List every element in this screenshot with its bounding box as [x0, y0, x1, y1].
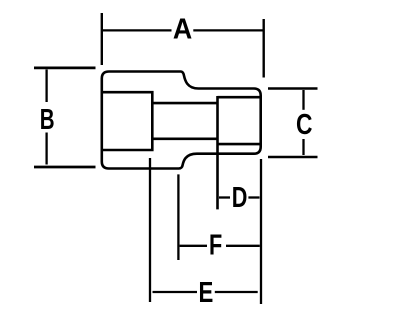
- svg-text:B: B: [40, 105, 55, 136]
- svg-text:F: F: [209, 230, 222, 262]
- svg-text:E: E: [198, 277, 213, 308]
- svg-text:D: D: [232, 182, 248, 214]
- svg-text:C: C: [296, 110, 312, 141]
- svg-text:A: A: [173, 13, 192, 45]
